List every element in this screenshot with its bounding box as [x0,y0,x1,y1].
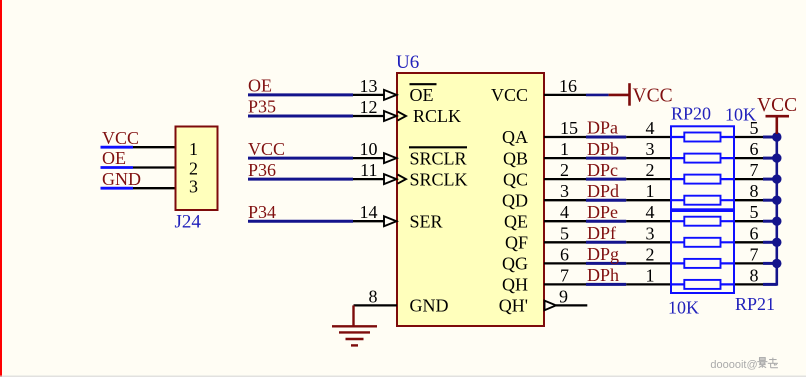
svg-text:4: 4 [646,118,655,138]
svg-text:9: 9 [559,286,568,306]
svg-text:10: 10 [360,139,378,159]
svg-text:5: 5 [560,223,569,243]
svg-text:P36: P36 [248,160,276,180]
svg-text:12: 12 [360,97,378,117]
svg-text:2: 2 [646,244,655,264]
svg-text:GND: GND [410,296,449,316]
svg-text:DPh: DPh [587,265,619,285]
svg-text:4: 4 [560,202,569,222]
svg-text:J24: J24 [175,211,202,232]
svg-text:SRCLR: SRCLR [410,148,467,168]
svg-text:4: 4 [646,202,655,222]
svg-text:SRCLK: SRCLK [410,169,468,189]
svg-text:11: 11 [360,160,377,180]
svg-text:3: 3 [646,139,655,159]
svg-text:VCC: VCC [491,85,528,105]
svg-text:dooooit@: dooooit@ [710,359,757,371]
svg-text:DPd: DPd [587,181,619,201]
svg-text:DPc: DPc [587,160,618,180]
svg-text:QB: QB [503,148,528,168]
svg-text:7: 7 [750,160,759,180]
svg-text:6: 6 [750,139,759,159]
svg-text:8: 8 [750,181,759,201]
svg-text:5: 5 [750,202,759,222]
svg-text:3: 3 [646,223,655,243]
svg-text:DPb: DPb [587,139,619,159]
svg-text:7: 7 [750,244,759,264]
svg-text:QA: QA [502,127,528,147]
svg-text:QH': QH' [499,296,528,316]
svg-text:2: 2 [189,158,198,178]
svg-text:RP21: RP21 [735,294,775,314]
svg-text:VCC: VCC [633,86,673,107]
svg-text:DPg: DPg [587,244,619,264]
svg-text:DPa: DPa [587,118,618,138]
svg-text:QC: QC [503,169,528,189]
svg-text:SER: SER [410,211,443,231]
svg-text:QG: QG [502,254,528,274]
svg-text:15: 15 [560,118,578,138]
svg-text:1: 1 [646,265,655,285]
svg-text:2: 2 [646,160,655,180]
svg-text:DPf: DPf [587,223,616,243]
svg-text:1: 1 [560,139,569,159]
svg-text:16: 16 [559,76,577,96]
svg-text:QE: QE [504,211,528,231]
svg-text:10K: 10K [668,298,699,318]
svg-text:QD: QD [502,190,528,210]
svg-text:8: 8 [369,286,378,306]
svg-text:3: 3 [189,177,198,197]
svg-text:7: 7 [560,265,569,285]
svg-text:RP20: RP20 [671,104,711,124]
svg-text:10K: 10K [725,105,756,125]
svg-text:P35: P35 [248,97,276,117]
svg-text:2: 2 [560,160,569,180]
svg-text:6: 6 [750,223,759,243]
svg-text:P34: P34 [248,202,276,222]
svg-text:8: 8 [750,265,759,285]
svg-text:1: 1 [189,139,198,159]
svg-text:QF: QF [505,233,528,253]
svg-text:14: 14 [360,202,378,222]
svg-text:3: 3 [560,181,569,201]
svg-text:RCLK: RCLK [413,106,461,126]
svg-text:VCC: VCC [102,128,139,148]
svg-text:VCC: VCC [757,95,797,116]
svg-text:QH: QH [502,275,528,295]
svg-text:OE: OE [410,85,434,105]
svg-text:1: 1 [646,181,655,201]
svg-text:OE: OE [248,76,272,96]
svg-text:GND: GND [102,169,141,189]
svg-text:13: 13 [360,76,378,96]
svg-text:OE: OE [102,148,126,168]
svg-text:6: 6 [560,244,569,264]
svg-text:VCC: VCC [248,139,285,159]
svg-text:DPe: DPe [587,202,618,222]
svg-text:U6: U6 [396,52,419,73]
